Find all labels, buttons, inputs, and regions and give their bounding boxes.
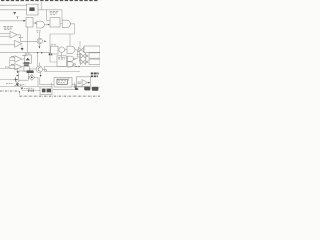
A3 A4 input bus: [9, 58, 11, 69]
label text rows left: [3, 26, 13, 29]
wire bottom middle: [53, 89, 79, 91]
box B1 oscillator: [27, 4, 39, 15]
junction dot: [37, 52, 38, 53]
long routing wire: [50, 34, 75, 62]
gate GA: [80, 53, 85, 58]
box B2: [50, 18, 60, 27]
ticks on it: [72, 64, 74, 66]
A1 inputs: [0, 32, 10, 34]
gate GD: [67, 62, 73, 67]
D1 output wire: [71, 24, 75, 34]
wire into B9: [50, 84, 54, 86]
box B5: [84, 46, 100, 52]
Q1 emitter: [38, 44, 40, 47]
gate G3: [67, 46, 75, 53]
A2 ground arrow: [21, 46, 23, 48]
G3 output down: [75, 50, 78, 57]
bowtie gate: [79, 47, 84, 52]
box B3: [26, 18, 33, 27]
box B10: [40, 87, 52, 95]
amp box B11: [77, 77, 91, 86]
bottom dash-dot: [20, 95, 101, 97]
A2 input wire: [0, 44, 15, 46]
wire top line 1: [0, 4, 27, 6]
long wire y66.5: [44, 66, 100, 68]
junction marks: [74, 85, 77, 90]
B9 output: [72, 84, 77, 86]
Q1 right mark: [44, 40, 46, 42]
input stubs: [77, 54, 81, 56]
sync label: [51, 44, 57, 46]
branch to G3 top: [69, 34, 71, 46]
wire with component to B10: [22, 90, 40, 92]
gate GC: [67, 56, 73, 61]
B2 to D1: [60, 23, 62, 25]
B3 output arrow: [33, 22, 36, 24]
B1 label: [29, 7, 34, 11]
box sync: [51, 46, 58, 54]
box B8: [57, 56, 66, 67]
arrow on wire: [41, 52, 43, 54]
wire branch to B2: [47, 10, 50, 20]
Y split ground: [16, 80, 20, 83]
circle C1: [59, 47, 65, 53]
op-amp A2: [15, 40, 22, 47]
diamond: [29, 75, 35, 81]
triangle label bottom left: [14, 85, 21, 87]
A1 label: [19, 37, 23, 39]
junction down: [37, 53, 39, 66]
box with triangle: [24, 55, 31, 63]
label Y mark: [16, 17, 18, 19]
long wire y52.7: [0, 52, 50, 54]
transistor Q2: [36, 66, 42, 72]
wire from top edge: [40, 2, 42, 10]
op-amp A4: [15, 64, 22, 70]
gate GB: [80, 59, 85, 64]
transistor Q1: [37, 38, 42, 43]
dark label block: [24, 62, 30, 64]
box B7: [89, 53, 100, 58]
wire AC: [0, 79, 17, 81]
wire AB with hook: [0, 69, 18, 72]
G2 output arrow: [45, 24, 50, 26]
A3 label: [22, 54, 27, 56]
op-amp A3: [15, 56, 22, 62]
long wire y72.3: [45, 67, 81, 72]
A1 output wire to Q1: [17, 35, 37, 42]
vertical bus x27.5: [27, 27, 29, 53]
gate G2: [37, 21, 45, 28]
op-amp A1: [10, 31, 17, 38]
wire top line 2: [0, 9, 27, 11]
dark text right: [91, 73, 99, 76]
small box AE: [24, 67, 29, 72]
left dash-dot: [0, 90, 20, 92]
label VCO text: [50, 11, 59, 14]
Q1 label: [36, 30, 40, 32]
tap symbol on wire: [13, 13, 16, 15]
dark tap marks: [49, 53, 51, 55]
wire y87 right: [75, 86, 100, 88]
box B6: [19, 71, 29, 80]
wire y86.5 left: [0, 86, 40, 88]
top cut-off text row: [1, 0, 98, 2]
Q1 collector: [38, 33, 40, 38]
wire B1 output: [38, 10, 62, 20]
arrowhead: [23, 20, 26, 22]
bottom right marks: [75, 88, 78, 90]
wire long input: [0, 20, 25, 22]
gate D1: [62, 20, 70, 27]
box B9: [54, 77, 72, 87]
vertical right: [79, 41, 81, 47]
